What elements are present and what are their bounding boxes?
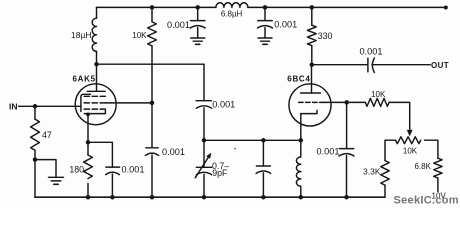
svg-text:0.001: 0.001 (162, 147, 185, 157)
inductor L3 (cathode RFC) (300, 140, 302, 157)
svg-text:6AK5: 6AK5 (73, 75, 96, 84)
wire cathode lead of 6AK5 down (87, 114, 89, 142)
resistor R5 10K (grid) (365, 98, 389, 106)
wire plate node to coupling cap (97, 63, 205, 65)
svg-text:10K: 10K (371, 90, 386, 99)
wire bottom rail (35, 196, 385, 198)
cathode bar of 6BC4 (301, 110, 317, 113)
resistor R2 180 (87, 142, 89, 155)
capacitor C1 0.001 (B+ bypass left) (195, 5, 200, 9)
svg-text:0.001: 0.001 (274, 20, 297, 30)
grid of 6BC4 (dashed) (299, 101, 325, 103)
wire 47 bottom to bottom rail (34, 160, 36, 198)
tube V1 6AK5 envelope (75, 84, 116, 125)
resistor R8 6.8K (434, 158, 442, 178)
svg-text:3.3K: 3.3K (363, 167, 381, 177)
resistor R7 3.3K (381, 161, 389, 186)
svg-text:180: 180 (69, 164, 84, 174)
tube V2 6BC4 envelope (289, 84, 331, 126)
node cathode junction dot (86, 113, 90, 117)
svg-text:SeekIC.com: SeekIC.com (394, 195, 459, 207)
inductor L2 6.8µH (216, 3, 248, 8)
arrow of variable cap (195, 158, 208, 178)
capacitor C2 0.001 (cathode bypass) (106, 166, 120, 168)
svg-text:0.001: 0.001 (360, 47, 383, 57)
capacitor C9 (cathode line bypass) (262, 140, 264, 166)
resistor R3 10K (screen dropping) (150, 5, 155, 9)
wire cathode node to bypass cap (88, 142, 112, 167)
svg-text:330: 330 (318, 31, 333, 41)
capacitor C5 0.001 (interstage coupling) (203, 64, 205, 101)
capacitor C6 0.001 (grid bypass) (346, 102, 348, 148)
ground (input) (35, 160, 56, 177)
capacitor C4 0.001 (B+ bypass right) (263, 5, 268, 9)
wire 6BC4 plate lead (311, 65, 313, 93)
inductor L1 18µH (96, 7, 98, 18)
capacitor C7 0.001 (output coupling) (367, 58, 369, 72)
capacitor C8 0.7-9pF variable (203, 140, 205, 167)
wire 6BC4 cathode lead down (300, 114, 302, 141)
wire screen lead to 10K column (105, 102, 152, 104)
svg-text:OUT: OUT (431, 61, 449, 70)
wire OUT line (312, 64, 368, 66)
wire grid lead from IN (19, 105, 82, 107)
wire grid lead to bias network (324, 101, 365, 103)
svg-text:18µH: 18µH (71, 30, 92, 40)
node IN junction (33, 104, 38, 109)
svg-text:6.8µH: 6.8µH (221, 9, 243, 18)
resistor R1 47 (34, 106, 36, 119)
svg-text:0.001: 0.001 (212, 99, 235, 109)
wire cathode drive line (204, 139, 301, 141)
capacitor C3 0.001 (screen bypass) (146, 147, 158, 149)
svg-text:0.001: 0.001 (167, 20, 190, 30)
wire plate lead into tube (96, 64, 98, 91)
cathode bracket of 6AK5 (81, 94, 91, 111)
plate of 6BC4 (301, 92, 321, 94)
svg-text:10K: 10K (403, 146, 418, 155)
ground (C1) (191, 37, 205, 39)
plate of 6AK5 (87, 90, 105, 92)
svg-text:0.001: 0.001 (317, 147, 340, 157)
svg-text:IN: IN (9, 102, 18, 112)
svg-text:10K: 10K (132, 31, 147, 40)
node plate junction (94, 62, 99, 67)
svg-text:6.8K: 6.8K (415, 162, 432, 171)
ground (C4) (258, 37, 272, 39)
svg-text:47: 47 (42, 130, 52, 140)
potentiometer R6 10K wiper arrow (407, 130, 413, 137)
cathode bar of 6AK5 (84, 110, 105, 113)
svg-text:6BC4: 6BC4 (287, 75, 310, 84)
grids of 6AK5 (dashed rows) (84, 96, 105, 109)
potentiometer R6 10K body (396, 137, 421, 144)
wire top B+ rail (97, 6, 216, 8)
terminal dot at rail end (444, 6, 448, 10)
svg-text:9pF: 9pF (212, 168, 228, 178)
svg-text:0.001: 0.001 (122, 165, 145, 175)
speck (234, 148, 236, 150)
resistor R4 330 (plate load) (310, 5, 315, 9)
